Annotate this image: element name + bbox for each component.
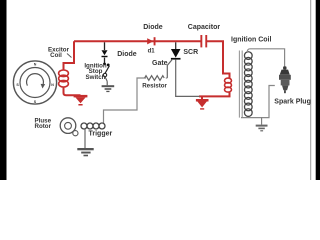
svg-text:Rotor: Rotor [35,123,52,130]
svg-text:N: N [51,83,54,87]
svg-text:Coil: Coil [50,52,62,59]
svg-text:N: N [34,63,37,67]
svg-text:Ignition Coil: Ignition Coil [231,36,271,43]
svg-text:Trigger: Trigger [89,130,113,137]
svg-text:Diode: Diode [143,24,163,31]
svg-text:d1: d1 [148,48,156,54]
svg-text:Gate: Gate [152,60,168,67]
svg-text:Spark Plug: Spark Plug [274,98,311,105]
svg-text:Capacitor: Capacitor [188,24,221,31]
svg-text:Resistor: Resistor [142,83,167,90]
svg-text:SCR: SCR [183,49,198,56]
svg-text:Diode: Diode [117,51,137,58]
svg-text:Switch: Switch [86,74,106,81]
